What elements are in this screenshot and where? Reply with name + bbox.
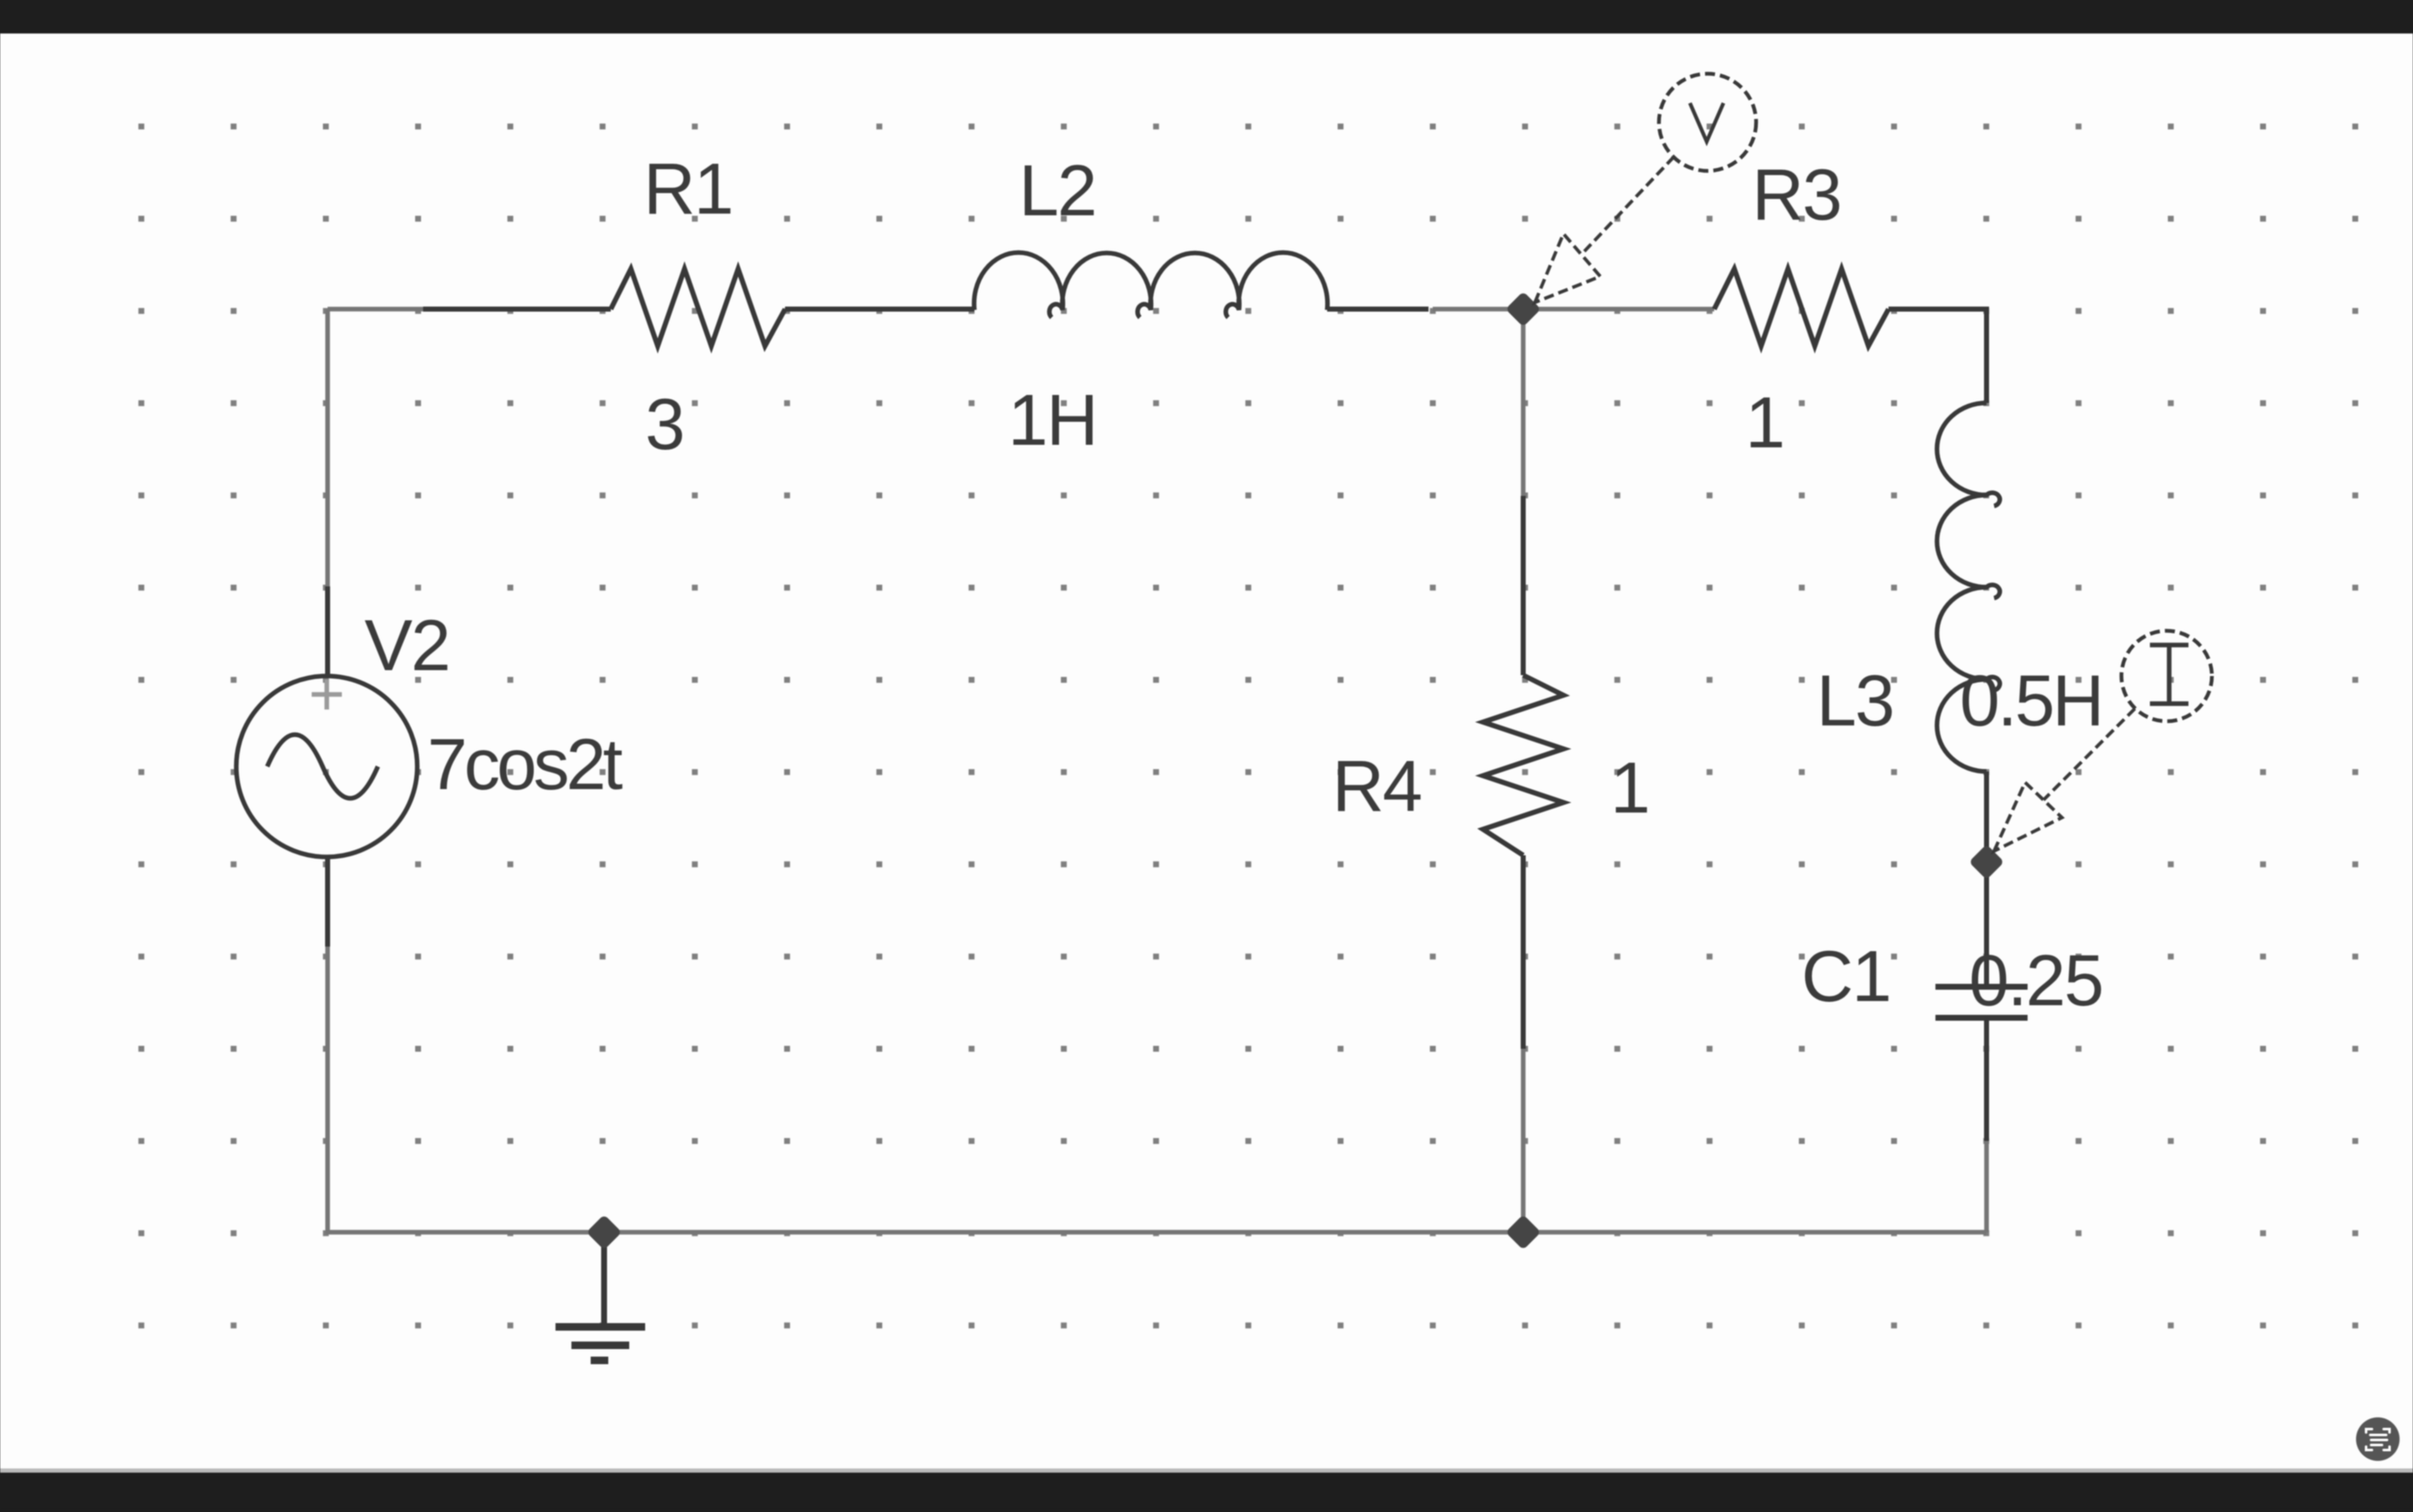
svg-text:R1: R1 bbox=[643, 149, 732, 230]
svg-text:C1: C1 bbox=[1801, 937, 1890, 1017]
svg-text:1H: 1H bbox=[1008, 380, 1097, 461]
svg-text:L2: L2 bbox=[1019, 151, 1096, 231]
svg-text:0.25: 0.25 bbox=[1969, 941, 2102, 1021]
svg-text:R3: R3 bbox=[1752, 155, 1841, 235]
svg-text:1: 1 bbox=[1610, 748, 1649, 828]
svg-text:R4: R4 bbox=[1332, 746, 1421, 827]
svg-text:3: 3 bbox=[645, 384, 684, 465]
svg-text:L3: L3 bbox=[1816, 661, 1894, 741]
svg-text:1: 1 bbox=[1745, 383, 1784, 463]
svg-text:V2: V2 bbox=[364, 606, 449, 686]
svg-text:0.5H: 0.5H bbox=[1960, 661, 2102, 741]
svg-text:7cos2t: 7cos2t bbox=[427, 725, 623, 805]
